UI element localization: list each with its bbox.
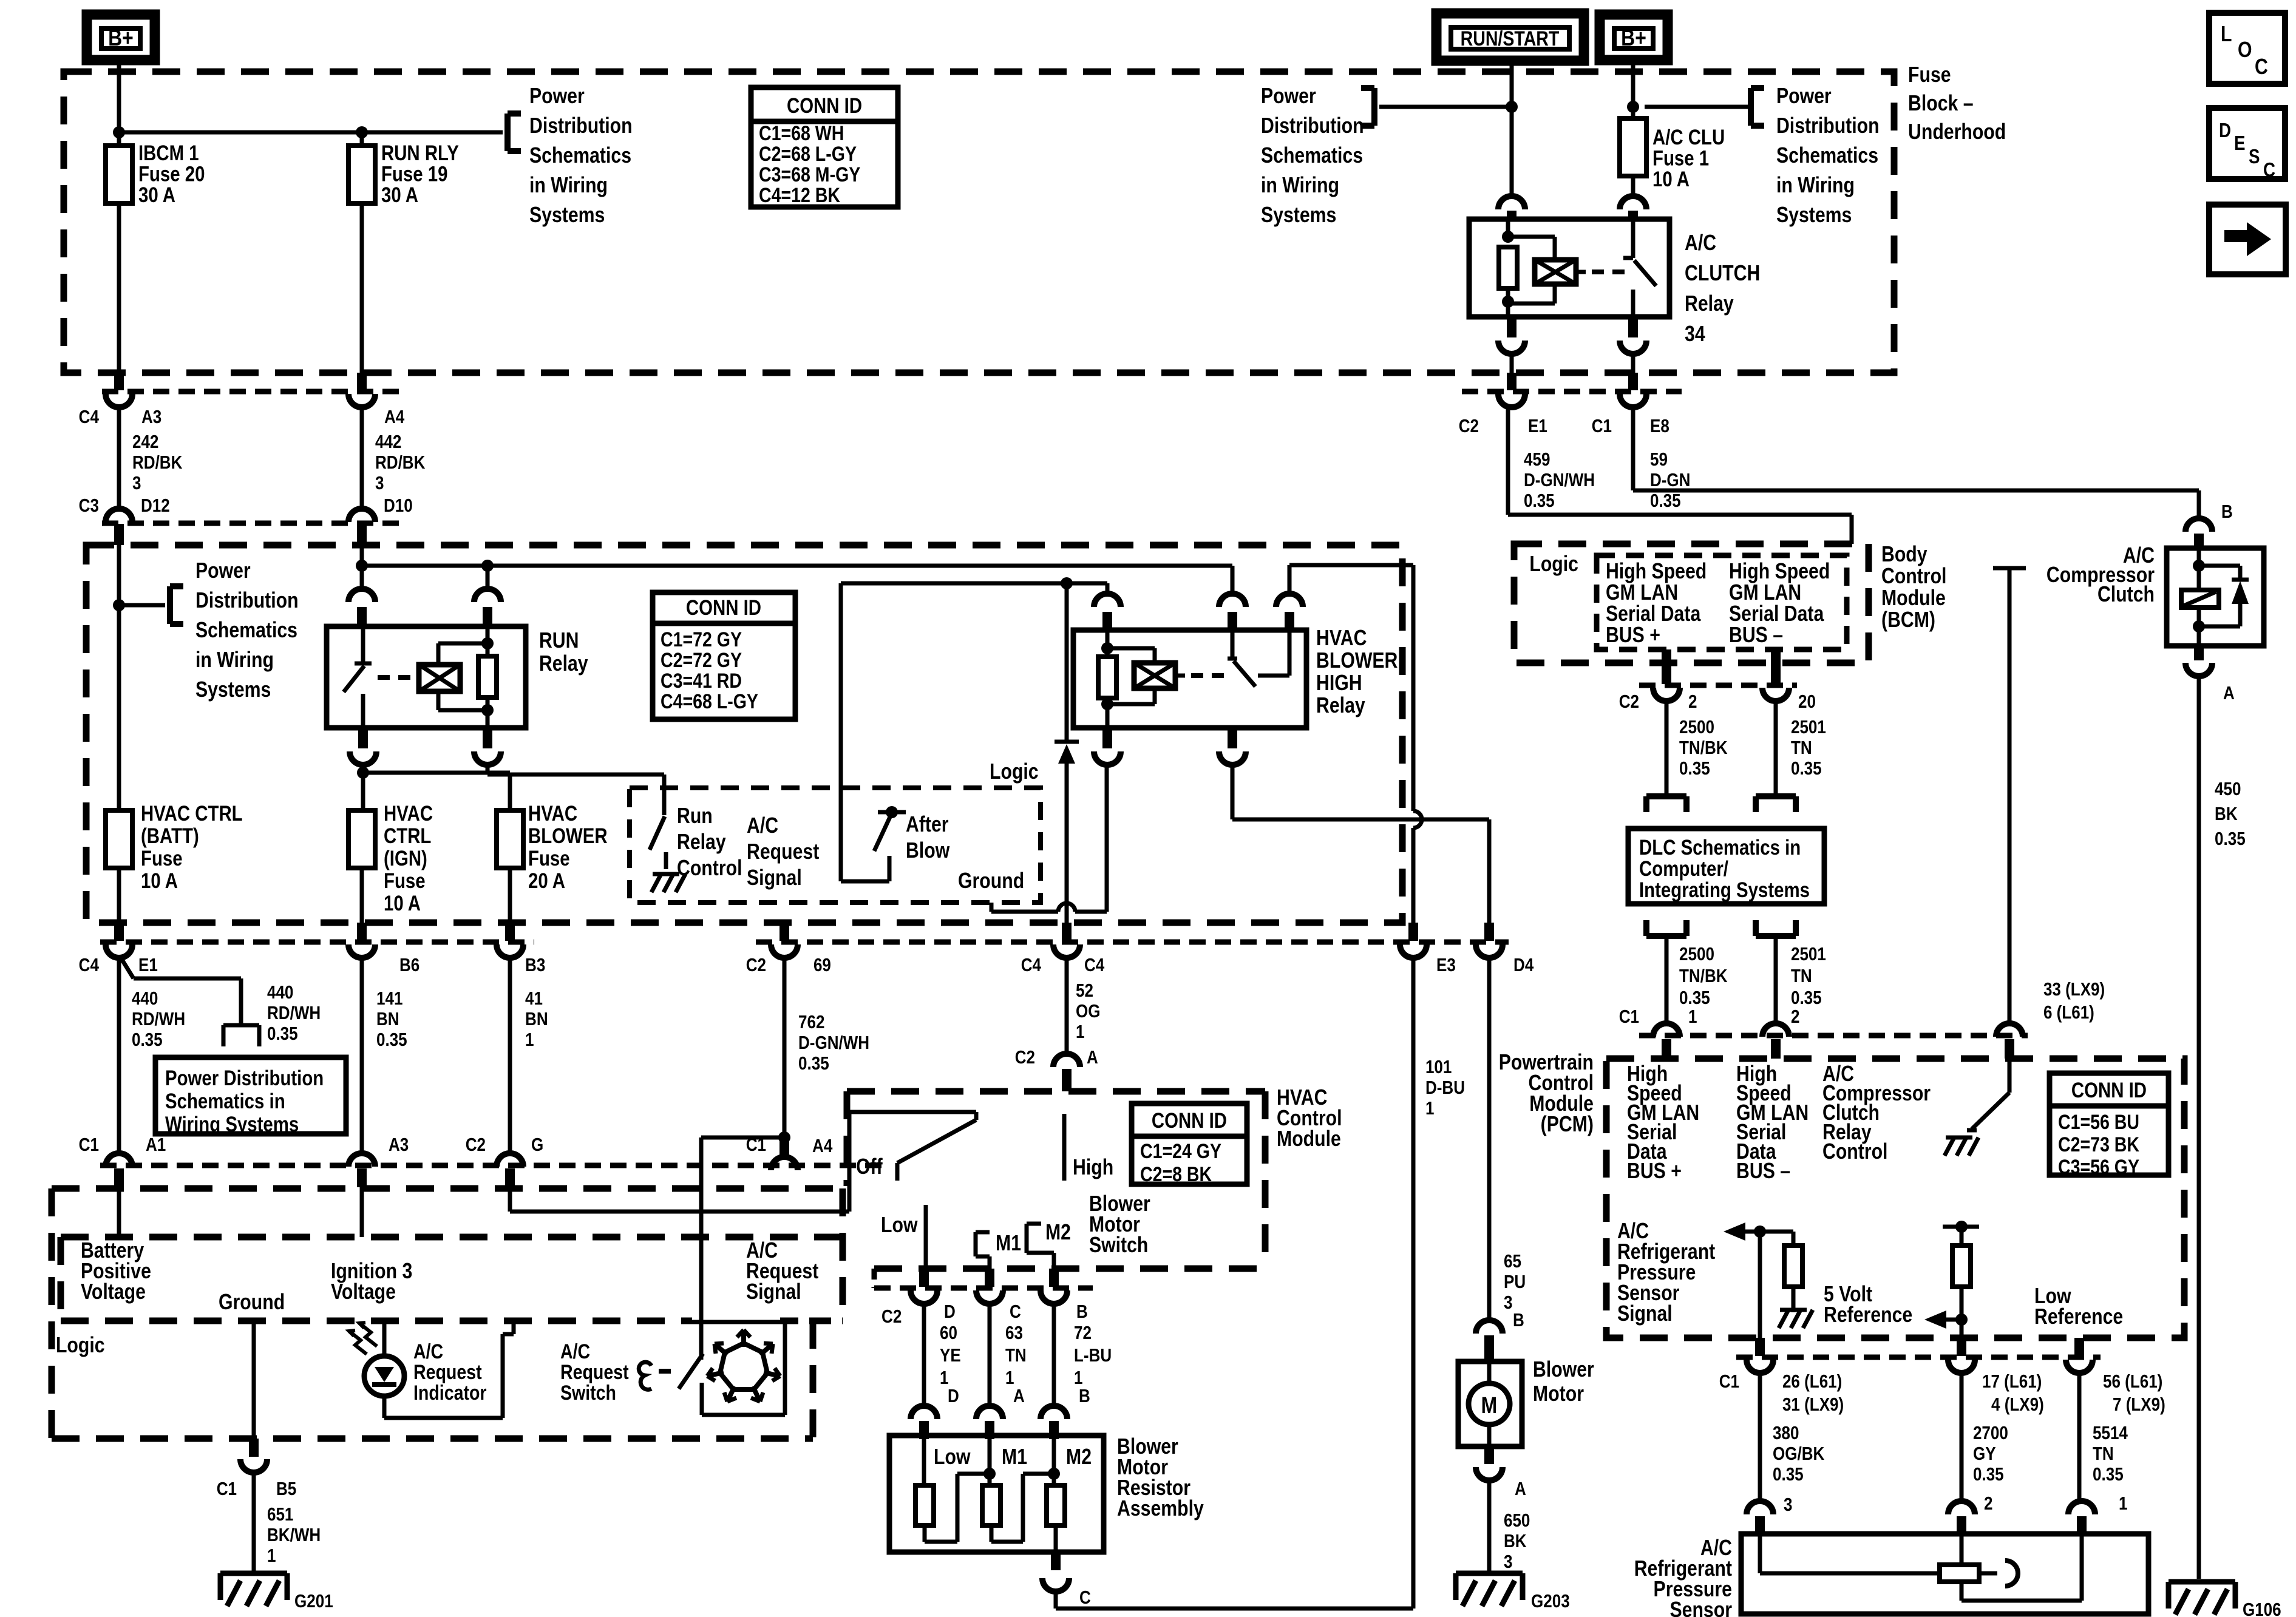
svg-text:Switch: Switch: [560, 1381, 616, 1405]
svg-text:C4: C4: [79, 955, 99, 976]
svg-text:YE: YE: [940, 1345, 961, 1366]
svg-text:34: 34: [1685, 322, 1705, 347]
svg-text:41: 41: [525, 988, 543, 1009]
svg-text:2501: 2501: [1791, 717, 1826, 738]
svg-text:5514: 5514: [2093, 1423, 2128, 1444]
svg-text:C2=8 BK: C2=8 BK: [1140, 1163, 1212, 1186]
svg-text:0.35: 0.35: [1679, 988, 1710, 1009]
svg-text:242: 242: [132, 432, 158, 453]
svg-text:Relay: Relay: [1316, 694, 1365, 718]
svg-text:C3: C3: [79, 495, 99, 517]
svg-text:Request: Request: [413, 1361, 482, 1384]
svg-text:30 A: 30 A: [138, 183, 175, 207]
svg-text:D12: D12: [141, 495, 170, 517]
svg-text:0.35: 0.35: [1679, 758, 1710, 779]
svg-text:2: 2: [1688, 691, 1697, 713]
svg-text:PU: PU: [1504, 1272, 1526, 1293]
svg-text:C2: C2: [1619, 691, 1639, 713]
svg-text:Fuse 20: Fuse 20: [138, 162, 205, 186]
svg-text:C2: C2: [1459, 416, 1479, 437]
svg-text:Signal: Signal: [747, 866, 802, 890]
svg-text:HVAC: HVAC: [528, 802, 577, 825]
svg-text:Fuse: Fuse: [384, 869, 426, 893]
svg-text:C1: C1: [79, 1134, 99, 1156]
svg-text:C4: C4: [1021, 955, 1041, 976]
svg-text:Underhood: Underhood: [1908, 120, 2006, 144]
svg-text:C2: C2: [1015, 1047, 1035, 1068]
svg-text:Systems: Systems: [529, 203, 605, 228]
svg-text:D-GN: D-GN: [1650, 470, 1691, 491]
svg-text:A/C: A/C: [1685, 231, 1716, 256]
svg-text:E: E: [2234, 132, 2245, 155]
svg-text:1: 1: [1425, 1098, 1435, 1119]
svg-text:RD/BK: RD/BK: [132, 452, 183, 473]
svg-text:TN: TN: [1791, 966, 1812, 987]
svg-text:Power: Power: [1261, 84, 1316, 109]
svg-text:Switch: Switch: [1089, 1233, 1148, 1258]
svg-text:D: D: [944, 1301, 956, 1323]
svg-text:After: After: [906, 813, 949, 837]
svg-text:3: 3: [1504, 1292, 1512, 1314]
svg-text:Block –: Block –: [1908, 92, 1974, 116]
svg-text:Control: Control: [1881, 564, 1946, 589]
svg-text:TN: TN: [1005, 1345, 1027, 1366]
svg-text:(BATT): (BATT): [141, 824, 199, 848]
svg-text:Motor: Motor: [1533, 1382, 1584, 1406]
svg-text:650: 650: [1504, 1510, 1530, 1531]
svg-text:Ground: Ground: [958, 869, 1024, 893]
svg-text:G106: G106: [2243, 1599, 2281, 1617]
svg-text:(IGN): (IGN): [384, 847, 427, 870]
svg-text:Distribution: Distribution: [1776, 114, 1880, 138]
svg-text:Logic: Logic: [1529, 552, 1578, 577]
svg-text:O: O: [2238, 38, 2252, 63]
svg-text:1: 1: [1076, 1022, 1085, 1043]
svg-text:3: 3: [375, 473, 384, 494]
svg-text:Schematics: Schematics: [529, 144, 631, 168]
svg-text:TN: TN: [1791, 737, 1812, 759]
svg-text:Fuse: Fuse: [141, 847, 183, 870]
svg-text:Distribution: Distribution: [529, 114, 633, 138]
svg-text:Run: Run: [677, 804, 713, 829]
svg-text:C1=56 BU: C1=56 BU: [2058, 1111, 2139, 1134]
svg-text:Module: Module: [1881, 586, 1946, 611]
svg-text:G203: G203: [1531, 1591, 1570, 1612]
svg-text:E1: E1: [138, 955, 158, 976]
svg-text:in Wiring: in Wiring: [195, 648, 274, 673]
svg-text:72: 72: [1074, 1323, 1092, 1344]
svg-text:M: M: [1481, 1392, 1498, 1418]
svg-text:RD/BK: RD/BK: [375, 452, 426, 473]
svg-text:BUS +: BUS +: [1627, 1159, 1682, 1184]
svg-text:Reference: Reference: [1824, 1303, 1912, 1327]
svg-text:GY: GY: [1973, 1443, 1996, 1465]
svg-text:C1=24 GY: C1=24 GY: [1140, 1140, 1221, 1163]
svg-text:0.35: 0.35: [132, 1029, 163, 1051]
svg-text:A/C: A/C: [413, 1340, 443, 1363]
svg-text:30 A: 30 A: [381, 183, 418, 207]
svg-text:3: 3: [1504, 1551, 1512, 1573]
svg-text:in Wiring: in Wiring: [1261, 174, 1339, 198]
svg-text:D-BU: D-BU: [1425, 1077, 1465, 1099]
svg-text:D-GN/WH: D-GN/WH: [1524, 470, 1595, 491]
svg-text:459: 459: [1524, 449, 1550, 470]
svg-text:0.35: 0.35: [1773, 1464, 1804, 1485]
svg-text:Relay: Relay: [1685, 292, 1734, 316]
svg-text:BUS –: BUS –: [1729, 623, 1783, 648]
svg-text:C2: C2: [746, 955, 766, 976]
svg-text:Indicator: Indicator: [413, 1381, 487, 1405]
svg-text:BLOWER: BLOWER: [528, 824, 608, 848]
svg-text:C2=68 L-GY: C2=68 L-GY: [759, 143, 857, 166]
svg-text:65: 65: [1504, 1251, 1521, 1272]
svg-text:HVAC: HVAC: [1316, 626, 1367, 651]
svg-text:C2: C2: [466, 1134, 486, 1156]
svg-text:0.35: 0.35: [1791, 988, 1822, 1009]
svg-text:10 A: 10 A: [141, 869, 178, 893]
svg-text:Ground: Ground: [219, 1290, 285, 1315]
svg-text:C4=12 BK: C4=12 BK: [759, 184, 840, 207]
svg-text:Voltage: Voltage: [81, 1280, 146, 1304]
svg-text:D10: D10: [384, 495, 413, 517]
svg-text:B: B: [2221, 501, 2233, 523]
svg-text:Schematics: Schematics: [1261, 144, 1363, 168]
svg-text:C4: C4: [79, 407, 99, 428]
svg-text:Fuse: Fuse: [528, 847, 570, 870]
svg-text:101: 101: [1425, 1057, 1452, 1078]
svg-text:A: A: [2223, 683, 2235, 704]
svg-text:Schematics in: Schematics in: [165, 1090, 285, 1113]
svg-text:A3: A3: [389, 1134, 409, 1156]
svg-text:Systems: Systems: [195, 678, 271, 702]
svg-text:BLOWER: BLOWER: [1316, 649, 1398, 673]
svg-text:C1=68 WH: C1=68 WH: [759, 122, 844, 145]
svg-text:450: 450: [2215, 779, 2241, 800]
svg-text:0.35: 0.35: [2093, 1464, 2124, 1485]
svg-text:0.35: 0.35: [1524, 490, 1555, 512]
svg-text:2700: 2700: [1973, 1423, 2008, 1444]
svg-text:C1=72 GY: C1=72 GY: [661, 628, 742, 651]
svg-text:C2: C2: [881, 1306, 902, 1327]
svg-text:Control: Control: [1822, 1140, 1887, 1164]
svg-text:in Wiring: in Wiring: [529, 174, 608, 198]
svg-text:B3: B3: [525, 955, 545, 976]
svg-text:Reference: Reference: [2034, 1305, 2123, 1329]
svg-text:HVAC: HVAC: [384, 802, 433, 825]
svg-text:141: 141: [376, 988, 402, 1009]
svg-text:C4: C4: [1084, 955, 1104, 976]
svg-text:Power: Power: [1776, 84, 1832, 109]
svg-text:C1: C1: [217, 1479, 237, 1500]
svg-text:BN: BN: [376, 1009, 399, 1030]
svg-text:A: A: [1013, 1386, 1025, 1407]
svg-text:CONN ID: CONN ID: [1152, 1109, 1227, 1133]
svg-text:Systems: Systems: [1776, 203, 1852, 228]
svg-text:(BCM): (BCM): [1881, 608, 1935, 632]
svg-text:B+: B+: [1621, 25, 1646, 50]
svg-text:Computer/: Computer/: [1639, 857, 1728, 881]
svg-text:BK: BK: [2215, 804, 2238, 825]
svg-text:B: B: [1513, 1310, 1524, 1331]
svg-text:D: D: [948, 1386, 959, 1407]
svg-text:Request: Request: [560, 1361, 629, 1384]
svg-text:56 (L61): 56 (L61): [2103, 1371, 2162, 1392]
svg-text:0.35: 0.35: [1650, 490, 1681, 512]
svg-text:C2=73 BK: C2=73 BK: [2058, 1133, 2139, 1156]
svg-text:Logic: Logic: [56, 1334, 105, 1358]
svg-text:M1: M1: [1002, 1445, 1027, 1470]
svg-text:2500: 2500: [1679, 944, 1714, 965]
svg-text:Wiring Systems: Wiring Systems: [165, 1113, 299, 1136]
svg-text:17 (L61): 17 (L61): [1982, 1371, 2042, 1392]
svg-text:B: B: [1076, 1301, 1088, 1323]
svg-text:L: L: [2221, 22, 2232, 47]
svg-text:2: 2: [1791, 1006, 1799, 1028]
svg-text:Integrating Systems: Integrating Systems: [1639, 878, 1810, 902]
svg-text:440: 440: [132, 988, 158, 1009]
svg-text:Low: Low: [881, 1213, 918, 1238]
svg-text:10 A: 10 A: [384, 892, 421, 915]
svg-text:E3: E3: [1436, 955, 1456, 976]
svg-text:CONN ID: CONN ID: [787, 94, 862, 118]
svg-text:63: 63: [1005, 1323, 1023, 1344]
svg-text:Low: Low: [934, 1445, 971, 1470]
svg-text:C3=68 M-GY: C3=68 M-GY: [759, 163, 860, 186]
svg-text:Blower: Blower: [1533, 1358, 1594, 1382]
svg-text:B: B: [1079, 1386, 1090, 1407]
svg-text:10 A: 10 A: [1652, 168, 1690, 191]
svg-text:C: C: [2255, 55, 2268, 80]
svg-text:0.35: 0.35: [1791, 758, 1822, 779]
svg-text:C1: C1: [1592, 416, 1612, 437]
svg-text:RUN RLY: RUN RLY: [381, 141, 459, 165]
svg-text:Module: Module: [1277, 1127, 1341, 1151]
svg-text:HVAC CTRL: HVAC CTRL: [141, 802, 243, 825]
svg-text:762: 762: [798, 1012, 824, 1033]
svg-text:BK: BK: [1504, 1531, 1527, 1552]
svg-text:20 A: 20 A: [528, 869, 565, 893]
svg-text:D4: D4: [1513, 955, 1533, 976]
svg-text:RUN/START: RUN/START: [1461, 27, 1560, 50]
svg-text:0.35: 0.35: [267, 1023, 298, 1045]
svg-text:7 (LX9): 7 (LX9): [2113, 1394, 2165, 1415]
svg-text:BUS –: BUS –: [1736, 1159, 1790, 1184]
svg-text:CLUTCH: CLUTCH: [1685, 262, 1760, 286]
svg-text:OG: OG: [1076, 1001, 1100, 1022]
svg-text:B6: B6: [399, 955, 419, 976]
svg-text:Distribution: Distribution: [195, 589, 299, 613]
svg-text:RD/WH: RD/WH: [267, 1003, 321, 1024]
svg-text:A1: A1: [146, 1134, 166, 1156]
svg-text:C: C: [1079, 1587, 1091, 1609]
svg-text:S: S: [2249, 146, 2260, 168]
svg-text:Request: Request: [747, 840, 819, 864]
svg-text:Schematics: Schematics: [195, 619, 297, 643]
svg-text:Assembly: Assembly: [1117, 1497, 1204, 1521]
svg-text:Fuse 1: Fuse 1: [1652, 146, 1709, 170]
svg-text:26 (L61): 26 (L61): [1782, 1371, 1842, 1392]
svg-text:380: 380: [1773, 1423, 1799, 1444]
svg-text:0.35: 0.35: [2215, 829, 2246, 850]
svg-text:A/C CLU: A/C CLU: [1652, 126, 1725, 149]
svg-text:Power: Power: [195, 559, 251, 583]
svg-text:A: A: [1515, 1479, 1526, 1500]
svg-text:Blow: Blow: [906, 839, 949, 863]
svg-text:M2: M2: [1066, 1445, 1092, 1470]
svg-text:1: 1: [525, 1029, 534, 1051]
svg-text:A4: A4: [384, 407, 404, 428]
svg-text:C: C: [1010, 1301, 1021, 1323]
svg-text:D-GN/WH: D-GN/WH: [798, 1032, 869, 1054]
svg-text:1: 1: [1688, 1006, 1697, 1028]
svg-text:CONN ID: CONN ID: [2071, 1079, 2147, 1102]
svg-text:A: A: [1087, 1047, 1098, 1068]
svg-text:Signal: Signal: [746, 1280, 801, 1304]
svg-text:TN/BK: TN/BK: [1679, 966, 1728, 987]
svg-text:(PCM): (PCM): [1541, 1113, 1594, 1137]
svg-text:BUS +: BUS +: [1606, 623, 1660, 648]
svg-text:Relay: Relay: [539, 652, 588, 676]
svg-text:3: 3: [1784, 1494, 1792, 1516]
svg-text:CTRL: CTRL: [384, 824, 431, 848]
svg-text:B+: B+: [108, 25, 134, 50]
svg-text:M1: M1: [996, 1232, 1021, 1256]
svg-text:D: D: [2219, 120, 2231, 142]
svg-text:E1: E1: [1528, 416, 1547, 437]
svg-text:E8: E8: [1650, 416, 1669, 437]
svg-text:651: 651: [267, 1504, 293, 1525]
svg-text:Fuse: Fuse: [1908, 63, 1951, 87]
svg-text:A/C: A/C: [560, 1340, 590, 1363]
svg-text:442: 442: [375, 432, 401, 453]
svg-text:31 (LX9): 31 (LX9): [1782, 1394, 1844, 1415]
svg-text:A3: A3: [141, 407, 161, 428]
svg-text:1: 1: [267, 1545, 276, 1567]
svg-text:Voltage: Voltage: [331, 1280, 396, 1304]
svg-text:33 (LX9): 33 (LX9): [2043, 979, 2105, 1000]
svg-text:A/C: A/C: [747, 814, 778, 838]
svg-text:Power: Power: [529, 84, 585, 109]
svg-text:Clutch: Clutch: [2097, 583, 2155, 607]
svg-text:Sensor: Sensor: [1669, 1598, 1732, 1617]
svg-text:Systems: Systems: [1261, 203, 1336, 228]
svg-text:Relay: Relay: [677, 830, 726, 855]
svg-text:BK/WH: BK/WH: [267, 1525, 321, 1546]
svg-text:B5: B5: [276, 1479, 296, 1500]
svg-text:Signal: Signal: [1617, 1302, 1673, 1326]
svg-text:0.35: 0.35: [798, 1053, 829, 1074]
svg-text:TN: TN: [2093, 1443, 2114, 1465]
svg-text:TN/BK: TN/BK: [1679, 737, 1728, 759]
svg-text:4 (LX9): 4 (LX9): [1991, 1394, 2044, 1415]
svg-text:2500: 2500: [1679, 717, 1714, 738]
svg-text:G201: G201: [294, 1591, 333, 1612]
svg-text:2: 2: [1984, 1493, 1992, 1514]
svg-text:69: 69: [813, 955, 831, 976]
svg-text:0.35: 0.35: [1973, 1464, 2004, 1485]
svg-text:2501: 2501: [1791, 944, 1826, 965]
svg-text:G: G: [531, 1134, 543, 1156]
svg-text:CONN ID: CONN ID: [686, 596, 761, 620]
svg-text:M2: M2: [1045, 1221, 1071, 1245]
svg-text:Fuse 19: Fuse 19: [381, 162, 447, 186]
svg-text:OG/BK: OG/BK: [1773, 1443, 1825, 1465]
svg-text:20: 20: [1798, 691, 1816, 713]
svg-text:0.35: 0.35: [376, 1029, 407, 1051]
svg-text:59: 59: [1650, 449, 1668, 470]
svg-text:IBCM 1: IBCM 1: [138, 141, 199, 165]
svg-text:C4=68 L-GY: C4=68 L-GY: [661, 690, 758, 713]
svg-text:DLC Schematics in: DLC Schematics in: [1639, 836, 1801, 859]
svg-text:C1: C1: [1719, 1371, 1739, 1392]
svg-text:1: 1: [2119, 1493, 2128, 1514]
svg-text:in Wiring: in Wiring: [1776, 174, 1855, 198]
svg-text:Body: Body: [1881, 543, 1927, 567]
svg-text:RD/WH: RD/WH: [132, 1009, 185, 1030]
svg-text:HIGH: HIGH: [1316, 671, 1362, 696]
svg-text:A4: A4: [812, 1136, 832, 1157]
svg-text:C1: C1: [1619, 1006, 1639, 1028]
svg-text:L-BU: L-BU: [1074, 1345, 1112, 1366]
svg-text:Power Distribution: Power Distribution: [165, 1066, 324, 1090]
svg-text:BN: BN: [525, 1009, 548, 1030]
svg-text:C: C: [2263, 159, 2275, 181]
svg-text:60: 60: [940, 1323, 957, 1344]
svg-text:440: 440: [267, 982, 293, 1003]
svg-text:6 (L61): 6 (L61): [2043, 1002, 2094, 1023]
svg-text:C2=72 GY: C2=72 GY: [661, 649, 742, 672]
svg-text:Logic: Logic: [990, 760, 1039, 784]
svg-text:C3=41 RD: C3=41 RD: [661, 670, 742, 693]
svg-text:52: 52: [1076, 980, 1093, 1002]
svg-text:Control: Control: [677, 856, 742, 881]
svg-text:RUN: RUN: [539, 629, 579, 653]
svg-text:C3=56 GY: C3=56 GY: [2058, 1156, 2139, 1179]
svg-text:Schematics: Schematics: [1776, 144, 1878, 168]
svg-text:Distribution: Distribution: [1261, 114, 1364, 138]
svg-text:High: High: [1073, 1156, 1113, 1180]
svg-text:3: 3: [132, 473, 141, 494]
